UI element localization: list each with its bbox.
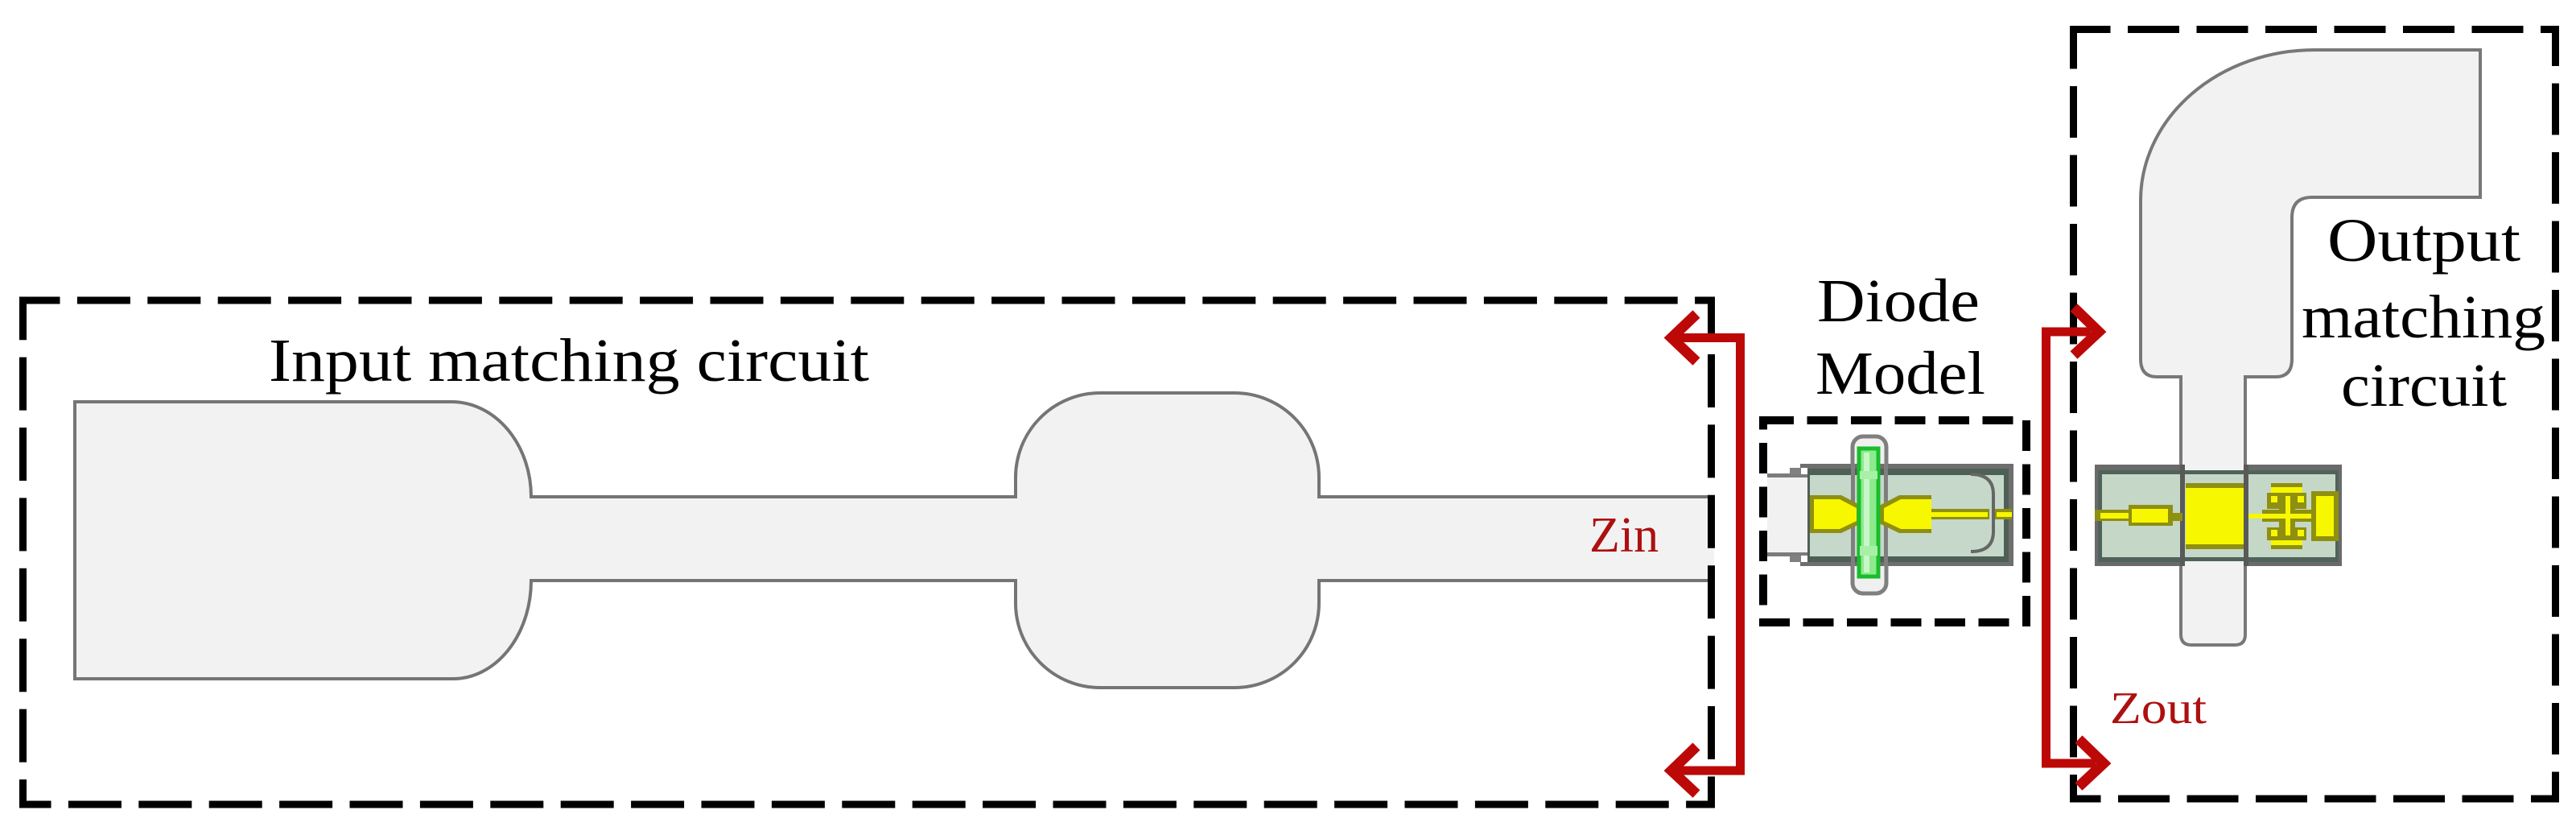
svg-text:Zin: Zin — [1589, 508, 1659, 563]
svg-text:Diode: Diode — [1817, 267, 1980, 335]
svg-text:matching: matching — [2302, 283, 2545, 351]
svg-text:Model: Model — [1816, 340, 1985, 407]
svg-text:Output: Output — [2327, 207, 2520, 275]
svg-text:Input matching circuit: Input matching circuit — [269, 327, 869, 395]
svg-text:Zout: Zout — [2110, 684, 2207, 734]
svg-text:circuit: circuit — [2341, 352, 2507, 420]
